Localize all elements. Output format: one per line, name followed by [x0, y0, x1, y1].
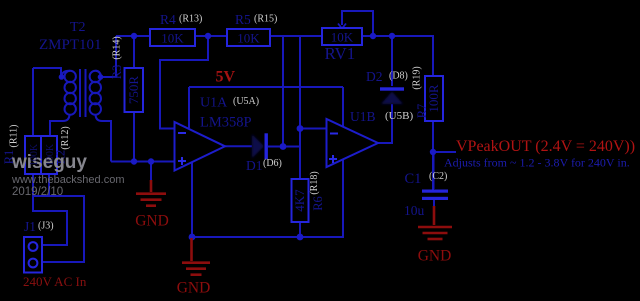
svg-text:R5: R5 [235, 12, 251, 27]
svg-text:D2: D2 [366, 69, 383, 84]
svg-text:(U5A): (U5A) [233, 96, 259, 107]
svg-text:10K: 10K [331, 30, 354, 45]
svg-text:(R19): (R19) [412, 66, 423, 89]
svg-text:(J3): (J3) [38, 221, 54, 232]
svg-text:LM358P: LM358P [200, 115, 252, 131]
svg-text:10K: 10K [237, 31, 260, 46]
svg-text:www.thebackshed.com: www.thebackshed.com [11, 174, 125, 186]
svg-text:(R11): (R11) [9, 125, 20, 148]
svg-text:(D8): (D8) [389, 71, 408, 82]
svg-text:(R14): (R14) [112, 36, 123, 59]
svg-text:10K: 10K [161, 31, 184, 46]
svg-text:J1: J1 [24, 219, 36, 234]
svg-text:100K: 100K [29, 143, 40, 166]
svg-text:(R13): (R13) [179, 14, 202, 25]
svg-text:4K7: 4K7 [292, 189, 307, 212]
svg-text:RV1: RV1 [325, 44, 356, 63]
svg-text:GND: GND [135, 213, 169, 230]
svg-text:R3: R3 [110, 65, 124, 80]
svg-text:10u: 10u [404, 203, 425, 218]
svg-text:U1B: U1B [350, 109, 376, 124]
svg-text:U1A: U1A [200, 96, 228, 111]
svg-text:ZMPT101: ZMPT101 [39, 37, 102, 53]
svg-text:D1: D1 [246, 158, 263, 173]
svg-text:(U5B): (U5B) [385, 110, 413, 122]
svg-text:(C2): (C2) [429, 171, 447, 182]
svg-text:C1: C1 [405, 171, 422, 187]
svg-text:(R15): (R15) [254, 14, 277, 25]
svg-text:GND: GND [177, 280, 211, 297]
svg-text:750R: 750R [126, 76, 141, 105]
svg-text:(D6): (D6) [263, 158, 282, 169]
svg-text:T2: T2 [70, 20, 86, 35]
svg-text:GND: GND [418, 248, 452, 265]
svg-text:R7: R7 [415, 104, 429, 119]
svg-text:Adjusts from ~ 1.2 - 3.8V for: Adjusts from ~ 1.2 - 3.8V for 240V in. [444, 156, 630, 170]
svg-text:VPeakOUT (2.4V = 240V)): VPeakOUT (2.4V = 240V)) [456, 138, 635, 155]
svg-text:100K: 100K [45, 143, 56, 166]
svg-text:5V: 5V [216, 69, 236, 86]
svg-text:(R12): (R12) [60, 126, 71, 149]
svg-text:(R18): (R18) [309, 171, 320, 194]
svg-text:R4: R4 [160, 12, 176, 27]
svg-text:2019/2/10: 2019/2/10 [12, 186, 63, 198]
svg-text:R6: R6 [311, 196, 325, 211]
svg-text:240V AC In: 240V AC In [23, 274, 87, 289]
